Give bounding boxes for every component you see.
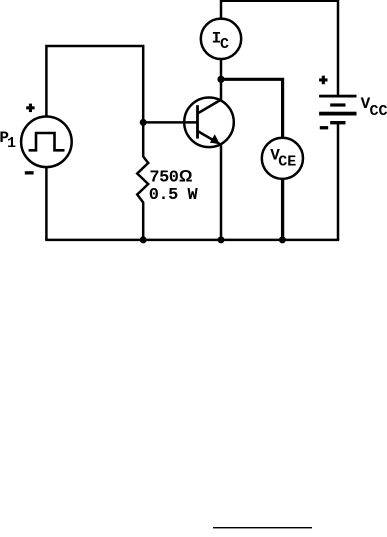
plus sign (battery) bbox=[319, 76, 327, 85]
node: base junction dot bbox=[140, 119, 147, 126]
wire: P1 bottom lead bbox=[45, 167, 48, 240]
wire: base wire to transistor bbox=[143, 121, 197, 124]
wire: resistor bottom to rail bbox=[142, 202, 145, 240]
svg-text:0.5 W: 0.5 W bbox=[149, 186, 199, 205]
label P1 bbox=[0, 129, 16, 152]
resistor R1 750 ohm zigzag bbox=[137, 157, 148, 203]
wire: emitter vertical bbox=[220, 144, 223, 240]
transistor Q1 collector stroke bbox=[198, 100, 222, 114]
voltmeter VCE circle bbox=[262, 138, 303, 179]
bottom rule line (cut-off element below figure) bbox=[213, 527, 312, 528]
node: rail dot under resistor bbox=[140, 236, 147, 243]
transistor Q1 circle bbox=[184, 98, 234, 148]
wire: VCE bottom lead bbox=[281, 179, 284, 240]
transistor Q1 emitter arrowhead bbox=[210, 134, 220, 144]
minus sign (P1) bbox=[25, 171, 34, 174]
pulse waveform symbol bbox=[29, 133, 65, 150]
svg-text:750: 750 bbox=[149, 168, 178, 187]
label VCE bbox=[270, 147, 296, 171]
battery VCC plate short 1 bbox=[330, 103, 345, 106]
label IC bbox=[212, 30, 229, 53]
svg-text:CE: CE bbox=[278, 153, 296, 170]
svg-text:Ω: Ω bbox=[179, 166, 193, 185]
transistor Q1 emitter stroke bbox=[198, 131, 222, 145]
pulse source P1 bbox=[21, 117, 72, 168]
wire: collector vertical bbox=[220, 79, 223, 100]
label VCC bbox=[361, 95, 387, 120]
wire: right vertical bottom (battery - to rail) bbox=[337, 123, 340, 240]
wire: IC bottom lead bbox=[220, 59, 223, 79]
wire: P1 top lead to base node (left loop) bbox=[46, 46, 143, 122]
label 750 ohm bbox=[149, 166, 192, 187]
wire: bottom rail bbox=[45, 239, 339, 242]
wire: collector node to VCE bbox=[221, 79, 283, 138]
battery VCC plate long 2 bbox=[319, 112, 356, 116]
node: rail dot under emitter bbox=[218, 236, 225, 243]
svg-text:1: 1 bbox=[7, 135, 16, 152]
node: rail dot under VCE bbox=[279, 236, 286, 243]
wire: base node to resistor top bbox=[142, 122, 145, 157]
ammeter IC circle bbox=[201, 19, 241, 59]
transistor Q1 base bar bbox=[196, 105, 199, 138]
plus sign (P1) bbox=[26, 104, 34, 113]
wire: IC top lead, top rail, right vertical to battery + bbox=[221, 1, 338, 96]
node: collector junction dot bbox=[217, 76, 224, 83]
battery VCC plate short 2 (bottom) bbox=[330, 121, 345, 124]
svg-text:C: C bbox=[220, 36, 229, 53]
svg-text:CC: CC bbox=[370, 103, 387, 120]
minus sign (battery) bbox=[320, 126, 328, 129]
battery VCC plate long top bbox=[319, 95, 356, 98]
